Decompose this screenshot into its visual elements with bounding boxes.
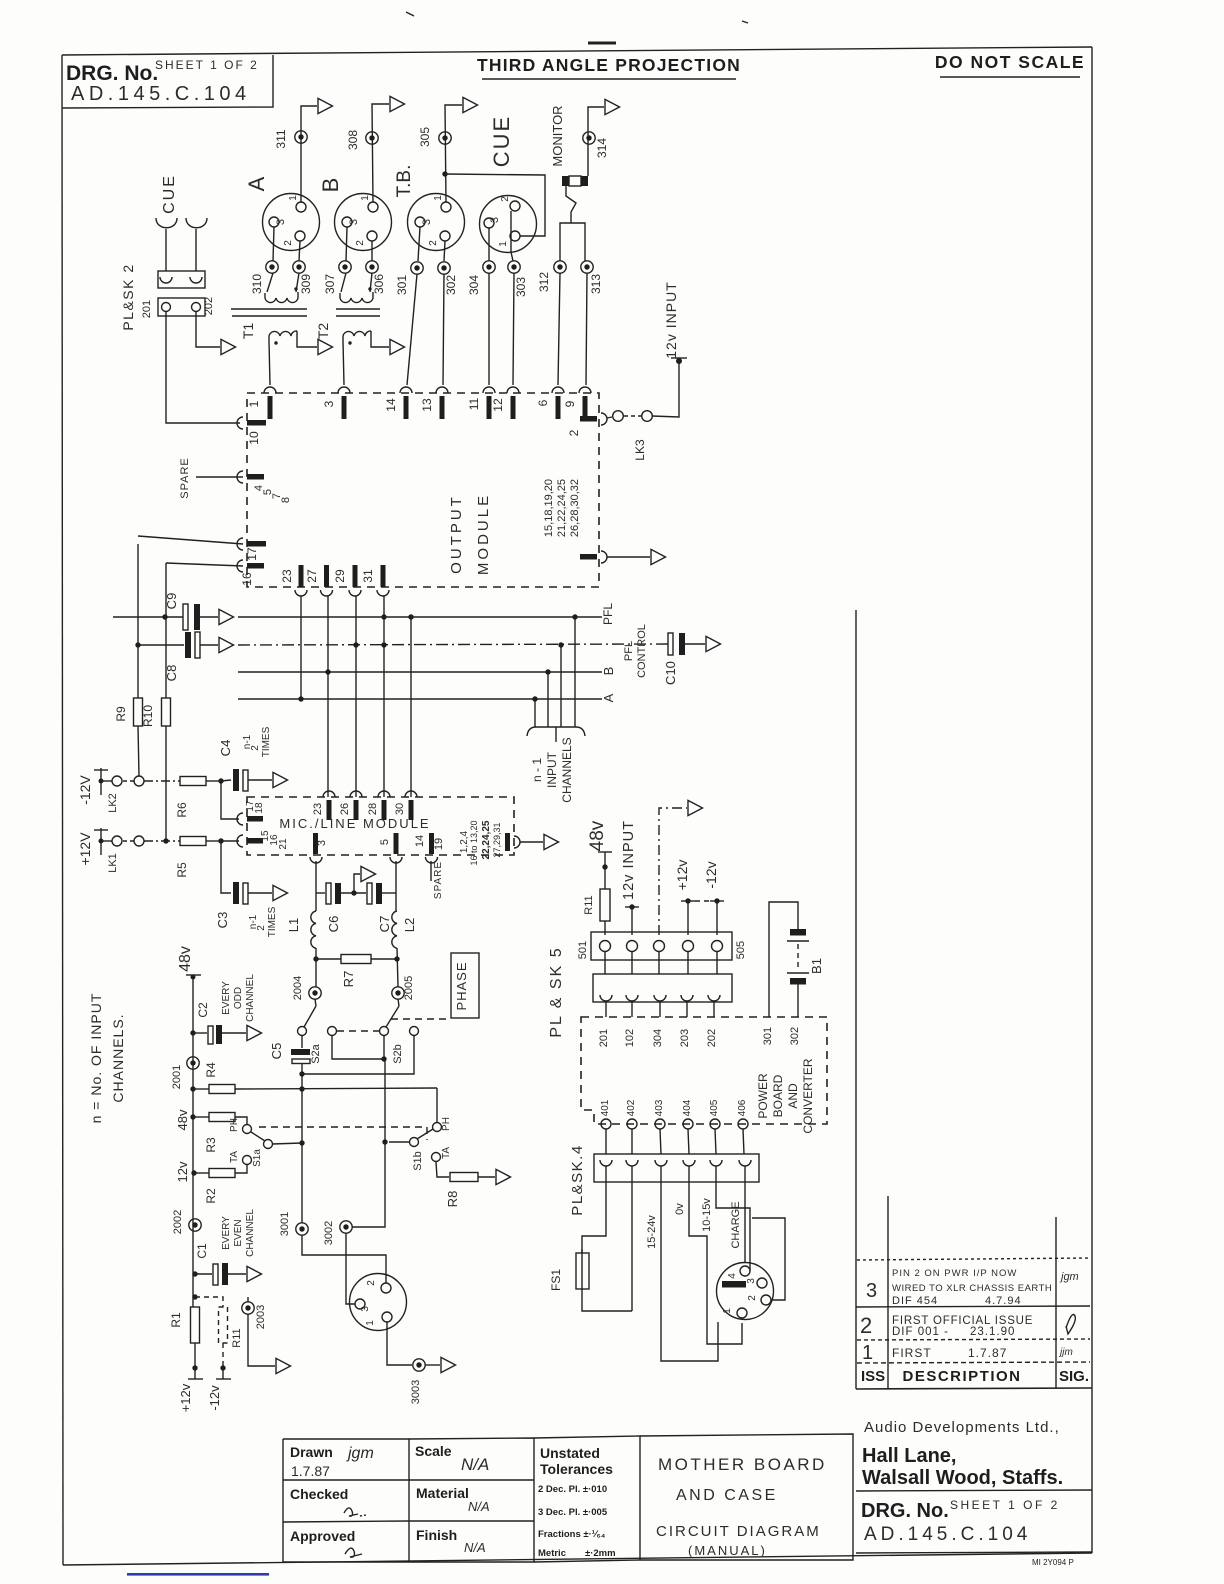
svg-text:102: 102 <box>624 1029 636 1047</box>
bus PFL CONTROL <box>238 644 668 645</box>
svg-text:R5: R5 <box>175 862 189 878</box>
wire R4 to S1b PH <box>235 1088 437 1089</box>
pin 1 <box>247 387 276 419</box>
svg-text:DIF 001 -: DIF 001 - <box>892 1326 949 1338</box>
svg-text:C5: C5 <box>269 1043 284 1060</box>
node 12v input <box>621 820 639 935</box>
terminal 307 <box>339 261 351 273</box>
supply +12V terminal <box>77 828 112 866</box>
wire pin16 to R10 column <box>166 563 243 566</box>
wire monitor to arrow <box>588 107 604 176</box>
svg-text:TIMES: TIMES <box>267 906 278 937</box>
svg-text:T2: T2 <box>315 323 331 340</box>
wire S2a right contact to S2b pivot <box>332 1036 384 1059</box>
svg-text:DRG. No.: DRG. No. <box>66 62 158 85</box>
node 48v right <box>587 820 612 889</box>
svg-text:202: 202 <box>706 1029 718 1047</box>
svg-text:27,29,31: 27,29,31 <box>492 822 502 857</box>
svg-text:C7: C7 <box>377 916 392 933</box>
arrow C2 <box>247 1025 262 1040</box>
title THIRD ANGLE PROJECTION <box>477 55 741 79</box>
svg-text:Audio Developments Ltd.,: Audio Developments Ltd., <box>864 1419 1060 1436</box>
svg-text:EVERY: EVERY <box>221 1216 232 1250</box>
svg-text:-12v: -12v <box>207 1385 222 1411</box>
arrow C8 <box>219 637 234 652</box>
connector XLR output bottom <box>350 1274 407 1331</box>
capacitor C1 <box>192 1209 256 1285</box>
svg-text:MOTHER BOARD: MOTHER BOARD <box>658 1455 827 1474</box>
bus B <box>238 671 602 673</box>
svg-text:404: 404 <box>682 1099 693 1116</box>
svg-text:R7: R7 <box>341 971 356 988</box>
mic/line pin 3 (bottom) <box>310 833 328 863</box>
svg-text:1: 1 <box>722 1308 733 1314</box>
arrow out T2 <box>390 339 405 354</box>
svg-text:A: A <box>601 693 616 702</box>
svg-text:PL&SK.4: PL&SK.4 <box>569 1144 586 1215</box>
svg-text:S1a: S1a <box>252 1149 263 1167</box>
svg-text:N/A: N/A <box>468 1499 490 1514</box>
svg-text:R2: R2 <box>204 1188 218 1204</box>
inductor L1 <box>286 911 316 948</box>
svg-text:L2: L2 <box>402 918 417 932</box>
svg-text:303: 303 <box>514 277 528 297</box>
pin 23 (bottom) <box>280 565 307 596</box>
svg-text:3: 3 <box>275 219 287 225</box>
svg-text:19: 19 <box>433 838 445 850</box>
svg-text:2: 2 <box>567 429 581 436</box>
svg-text:CIRCUIT DIAGRAM: CIRCUIT DIAGRAM <box>656 1523 821 1540</box>
svg-text:Hall Lane,: Hall Lane, <box>862 1445 956 1467</box>
svg-text:2: 2 <box>355 240 366 246</box>
svg-text:DO NOT SCALE: DO NOT SCALE <box>935 52 1085 72</box>
power board bottom pins 401-406 <box>600 1099 748 1129</box>
svg-text:403: 403 <box>654 1099 665 1116</box>
terminal 313 <box>581 261 593 273</box>
svg-text:1: 1 <box>862 1342 873 1364</box>
svg-text:Material: Material <box>416 1485 469 1501</box>
svg-text:TA: TA <box>441 1147 452 1159</box>
revision table <box>856 1196 1092 1389</box>
connector PL&SK5 plug row <box>548 932 747 1038</box>
svg-text:310: 310 <box>250 274 264 294</box>
svg-text:11: 11 <box>467 397 481 410</box>
bottom title strip: drawn/checked/approved <box>283 1439 409 1562</box>
svg-text:21: 21 <box>278 838 289 850</box>
svg-text:Drawn: Drawn <box>290 1444 333 1460</box>
wire to arrow <box>520 841 543 843</box>
scanner blue line artifact <box>127 1573 269 1576</box>
svg-text:Finish: Finish <box>416 1527 457 1543</box>
link LK1 <box>107 836 144 873</box>
bottom title strip: scale/material/finish <box>409 1438 534 1562</box>
svg-text:SPARE: SPARE <box>179 457 191 498</box>
mic/line pin right group <box>459 820 520 865</box>
mic/line pin 26 <box>339 791 362 820</box>
svg-text:405: 405 <box>709 1099 720 1116</box>
capacitor C2 <box>190 974 256 1044</box>
svg-text:N/A: N/A <box>464 1540 486 1555</box>
svg-text:T1: T1 <box>240 323 256 340</box>
svg-text:-12v: -12v <box>703 861 719 888</box>
svg-text:305: 305 <box>418 127 432 147</box>
resistor R11 dashed optional <box>195 1297 228 1368</box>
svg-text:SPARE: SPARE <box>433 861 444 899</box>
wire -12v rail <box>144 780 180 782</box>
svg-text:3: 3 <box>348 219 360 225</box>
bottom title strip: drawing title <box>640 1434 853 1560</box>
capacitor C5 <box>269 1036 310 1074</box>
svg-text:2: 2 <box>283 240 294 246</box>
svg-text:1.7.87: 1.7.87 <box>968 1346 1007 1360</box>
connector PL&SK2 <box>120 263 215 330</box>
switch S1a <box>229 1118 302 1167</box>
connector PL&SK4 <box>569 1144 759 1215</box>
svg-text:2001: 2001 <box>171 1065 183 1089</box>
terminal 310 <box>266 261 278 273</box>
terminal 308 <box>366 132 378 144</box>
resistor R5 <box>175 837 221 878</box>
arrow out mic/line <box>544 834 559 849</box>
svg-text:401: 401 <box>600 1099 611 1116</box>
svg-text:TIMES: TIMES <box>261 726 272 757</box>
resistor R3 <box>193 1113 247 1153</box>
pin 27 (bottom) <box>305 565 333 596</box>
svg-text:PH: PH <box>229 1118 240 1132</box>
svg-text:3: 3 <box>360 1306 371 1312</box>
svg-text:CONTROL: CONTROL <box>636 624 648 678</box>
terminal 301 <box>411 262 423 274</box>
capacitor C6 <box>316 883 366 932</box>
svg-text:201: 201 <box>141 300 153 318</box>
svg-text:AND: AND <box>786 1083 800 1109</box>
svg-text:5: 5 <box>379 839 391 845</box>
svg-text:SIG.: SIG. <box>1059 1368 1089 1385</box>
pin 29 (bottom) <box>333 565 361 596</box>
svg-text:R9: R9 <box>114 706 128 722</box>
wire T2 secondary right to arrow <box>371 331 389 347</box>
node <box>218 778 223 783</box>
wire T1 secondary left to pin1 <box>269 341 270 385</box>
svg-text:18: 18 <box>254 802 265 814</box>
terminal 2005 <box>392 987 404 999</box>
svg-text:jgm: jgm <box>346 1445 374 1462</box>
svg-text:ISS: ISS <box>861 1368 885 1385</box>
svg-text:n - 1: n - 1 <box>530 758 544 782</box>
svg-text:AD.145.C.104: AD.145.C.104 <box>864 1524 1031 1545</box>
wire +12v rail <box>144 840 180 842</box>
wire 202 to arrow <box>196 312 220 347</box>
svg-text:N/A: N/A <box>461 1455 489 1474</box>
svg-text:±·2mm: ±·2mm <box>585 1548 616 1559</box>
svg-text:48v: 48v <box>587 820 608 851</box>
svg-text:15-24v: 15-24v <box>646 1215 658 1249</box>
resistor R9 <box>114 544 143 776</box>
svg-text:3 Dec. Pl. ±·005: 3 Dec. Pl. ±·005 <box>538 1507 608 1518</box>
svg-text:2004: 2004 <box>292 976 304 1000</box>
svg-text:402: 402 <box>626 1099 637 1116</box>
svg-text:SHEET 1 OF 2: SHEET 1 OF 2 <box>950 1498 1060 1512</box>
svg-text:3002: 3002 <box>323 1221 335 1245</box>
svg-text:L1: L1 <box>286 918 301 932</box>
terminal 302 <box>438 262 450 274</box>
svg-text:jjm: jjm <box>1058 1347 1073 1358</box>
terminal 2003 <box>242 1297 275 1366</box>
arrow out module right <box>651 549 666 564</box>
svg-text:n = No. OF INPUT: n = No. OF INPUT <box>88 993 104 1124</box>
svg-text:R1: R1 <box>169 1312 183 1328</box>
svg-text:Unstated: Unstated <box>540 1445 600 1461</box>
svg-text:BOARD: BOARD <box>771 1074 785 1117</box>
svg-text:Walsall Wood, Staffs.: Walsall Wood, Staffs. <box>862 1467 1063 1489</box>
pin 2 (right edge) <box>567 413 607 436</box>
svg-text:1: 1 <box>365 1320 376 1326</box>
svg-text:3: 3 <box>866 1280 877 1302</box>
fuse FS1 with wire <box>549 1182 632 1311</box>
svg-text:9: 9 <box>563 400 577 407</box>
arrow C1 <box>247 1266 262 1281</box>
pin out right lower (right edge) <box>580 551 607 563</box>
svg-text:1: 1 <box>433 195 444 201</box>
svg-text:4.7.94: 4.7.94 <box>985 1295 1022 1307</box>
wire T1 secondary right to arrow <box>297 331 317 347</box>
svg-text:10-15v: 10-15v <box>701 1198 713 1232</box>
svg-text:PFL: PFL <box>623 641 635 661</box>
arrow 2003 <box>276 1358 291 1373</box>
svg-text:203: 203 <box>679 1029 691 1047</box>
svg-text:12v INPUT: 12v INPUT <box>621 820 637 900</box>
svg-text:28: 28 <box>367 803 379 815</box>
svg-text:406: 406 <box>737 1099 748 1116</box>
wire A pin2 to 309 <box>299 241 300 261</box>
wire B pin3 to 307 <box>346 227 347 261</box>
svg-text:WIRED TO XLR CHASSIS EARTH: WIRED TO XLR CHASSIS EARTH <box>892 1283 1052 1294</box>
pin 13 <box>420 387 448 419</box>
arrow out B <box>390 96 405 111</box>
svg-text:R10: R10 <box>141 705 155 727</box>
wire main left column down <box>301 1074 303 1223</box>
capacitor C4 <box>218 726 272 791</box>
svg-text:CHANNELS.: CHANNELS. <box>110 1013 126 1102</box>
svg-text:B: B <box>601 667 616 676</box>
svg-text:3003: 3003 <box>410 1380 422 1404</box>
svg-text:48v: 48v <box>175 1109 190 1130</box>
wire TB pin1 up to arrow <box>445 105 462 202</box>
wire 304 down to pin11 / 303 down to pin12 <box>488 273 490 385</box>
PHASE box <box>451 953 479 1018</box>
link LK3 <box>607 411 652 461</box>
wire spare <box>196 476 243 478</box>
svg-text:FIRST: FIRST <box>892 1346 932 1360</box>
svg-text:Checked: Checked <box>290 1486 348 1502</box>
terminal 311 <box>295 131 307 143</box>
pin 17 (left edge) <box>237 538 266 561</box>
wire A pin3 to 310 <box>273 227 274 261</box>
svg-text:MI 2Y094 P: MI 2Y094 P <box>1032 1558 1074 1567</box>
svg-text:A: A <box>244 176 269 191</box>
svg-text:R3: R3 <box>204 1137 218 1153</box>
pin 6 <box>536 387 564 419</box>
svg-text:+12v: +12v <box>674 860 690 891</box>
svg-text:2: 2 <box>428 240 439 246</box>
wire node to mic/line pin 15/16/21 <box>221 840 239 842</box>
wire node to mic/line pin 17/18 <box>221 781 239 819</box>
node 12v input <box>676 358 682 364</box>
svg-text:AD.145.C.104: AD.145.C.104 <box>71 83 251 105</box>
wire CUE pin3 to 304 <box>488 228 490 261</box>
wire A pin1 to arrow <box>301 106 317 202</box>
wire pin3 down / node <box>315 861 317 911</box>
arrow out T1 <box>318 339 333 354</box>
coupling dash S1a-S1b <box>259 1127 427 1140</box>
switch S2a <box>298 999 337 1064</box>
wire 3001 to XLR pin2 <box>302 1235 386 1283</box>
wire B pin2 to 306 <box>371 241 373 261</box>
wire XLR pin2 loop <box>752 1218 785 1300</box>
svg-text:2: 2 <box>860 1313 872 1338</box>
svg-text:23: 23 <box>312 803 324 815</box>
svg-text:14: 14 <box>414 835 426 847</box>
svg-text:C6: C6 <box>326 916 341 933</box>
svg-text:307: 307 <box>323 274 337 294</box>
wire monitor jack zigzag fork <box>566 186 576 223</box>
svg-text:S1b: S1b <box>412 1151 424 1171</box>
wire riser to arrow <box>659 808 687 935</box>
svg-text:12v: 12v <box>175 1161 190 1182</box>
svg-text:306: 306 <box>372 274 386 294</box>
svg-text:R8: R8 <box>445 1191 460 1208</box>
svg-text:CHARGE: CHARGE <box>730 1201 742 1248</box>
DRG number box (top left) <box>62 55 273 108</box>
pin 3 <box>322 387 350 419</box>
arrow C4 <box>273 772 288 787</box>
supply -12v bottom <box>207 1365 231 1410</box>
svg-text:Fractions ±·¹⁄₆₄: Fractions ±·¹⁄₆₄ <box>538 1529 606 1540</box>
wire 3002 to XLR pin3 <box>346 1233 355 1304</box>
svg-text:EVERY: EVERY <box>221 981 232 1015</box>
svg-text:CHANNEL: CHANNEL <box>245 974 256 1022</box>
mic/line pin 5 (bottom) <box>379 833 402 863</box>
svg-text:+12v: +12v <box>178 1383 193 1412</box>
pin 16 (left edge) <box>237 560 264 586</box>
svg-text:3: 3 <box>316 840 328 846</box>
svg-text:FS1: FS1 <box>549 1269 563 1291</box>
svg-text:301: 301 <box>762 1027 774 1045</box>
mic/line pin 23 <box>312 791 335 820</box>
svg-text:CONVERTER: CONVERTER <box>801 1058 815 1133</box>
wire 15-24v <box>661 1182 718 1361</box>
wire to arrow right <box>607 556 650 558</box>
svg-text:14: 14 <box>384 398 398 412</box>
svg-text:308: 308 <box>346 130 360 150</box>
wire bus drops to mic/line module <box>300 596 302 699</box>
bus A <box>238 698 602 700</box>
wire S2b branch down <box>352 1059 385 1227</box>
node -12v right <box>703 861 724 935</box>
title DO NOT SCALE <box>935 52 1085 77</box>
bracket n-1 input channels <box>527 727 585 803</box>
arrow 48v phantom <box>688 800 703 815</box>
vertical divider line left of revision column <box>855 610 857 1389</box>
capacitor C7 <box>367 883 396 932</box>
terminal 303 <box>508 261 520 273</box>
mic/line pin 15/16/21 (left) <box>237 830 289 850</box>
svg-text:Scale: Scale <box>415 1443 452 1459</box>
arrow out 202 <box>221 339 236 354</box>
wire PH contact up to R4 line <box>436 1088 438 1122</box>
svg-text:C4: C4 <box>218 740 233 757</box>
svg-text:C3: C3 <box>215 912 230 929</box>
svg-text:LK3: LK3 <box>633 439 647 461</box>
svg-text:501: 501 <box>577 941 589 959</box>
svg-text:CHANNEL: CHANNEL <box>245 1209 256 1257</box>
wire pin17 to R9 column <box>138 536 243 544</box>
node +12v right <box>674 860 710 935</box>
terminal 312 <box>554 261 566 273</box>
link LK2 <box>107 776 144 813</box>
capacitor C3 <box>215 841 278 937</box>
svg-text:13: 13 <box>420 398 434 412</box>
svg-text:1: 1 <box>360 195 371 201</box>
svg-text:1: 1 <box>247 400 261 407</box>
resistor R6 <box>175 777 221 818</box>
svg-text:AND CASE: AND CASE <box>676 1487 778 1504</box>
svg-text:OUTPUT: OUTPUT <box>448 494 465 574</box>
terminal 3003 <box>413 1359 425 1371</box>
svg-text:2: 2 <box>366 1280 377 1286</box>
svg-text:26,28,30,32: 26,28,30,32 <box>569 479 581 537</box>
wire bus right drops to n-1 channels bracket <box>574 617 576 727</box>
wire C5 node to S2b right contact <box>299 1071 304 1076</box>
pin 10 (left edge) <box>237 417 266 445</box>
svg-text:C10: C10 <box>663 661 678 685</box>
node TB junction <box>442 171 447 176</box>
svg-text:16: 16 <box>240 572 254 586</box>
svg-text:DIF 454: DIF 454 <box>892 1295 938 1307</box>
svg-text:3: 3 <box>489 217 501 223</box>
svg-text:3: 3 <box>746 1278 757 1284</box>
svg-text:CHANNELS: CHANNELS <box>560 737 574 802</box>
svg-text:MODULE: MODULE <box>475 493 492 575</box>
svg-text:302: 302 <box>789 1027 801 1045</box>
svg-text:TA: TA <box>229 1151 240 1163</box>
svg-text:23.1.90: 23.1.90 <box>970 1326 1015 1338</box>
svg-text:ODD: ODD <box>233 987 244 1009</box>
monitor jack <box>550 105 588 186</box>
svg-text:10: 10 <box>247 431 261 445</box>
svg-text:1: 1 <box>498 241 509 247</box>
wire spare stub <box>430 861 432 881</box>
svg-text:12v INPUT: 12v INPUT <box>663 281 679 358</box>
svg-text:48v: 48v <box>177 946 194 972</box>
terminal 2004 <box>309 987 321 999</box>
capacitor C10 <box>663 633 705 685</box>
connector XLR TB <box>394 165 465 251</box>
svg-text:29: 29 <box>333 569 347 583</box>
wire pin5 down <box>395 861 397 911</box>
arrow out A <box>318 98 333 113</box>
svg-text:T.B.: T.B. <box>394 165 415 198</box>
connector XLR CUE <box>480 115 537 253</box>
svg-text:3001: 3001 <box>279 1212 291 1236</box>
mic/line pin 14/19 (bottom) <box>414 833 445 863</box>
svg-text:R6: R6 <box>175 802 189 818</box>
svg-text:INPUT: INPUT <box>545 751 559 788</box>
svg-text:314: 314 <box>595 138 609 158</box>
svg-text:PL & SK 5: PL & SK 5 <box>548 946 565 1037</box>
arrow out TB <box>463 97 478 112</box>
transformer T1 <box>231 273 307 345</box>
